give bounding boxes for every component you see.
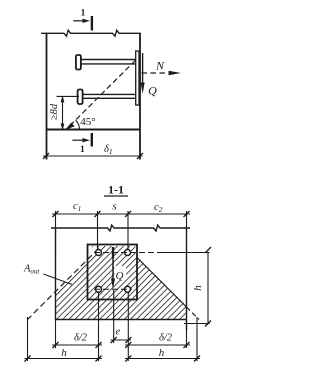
anchor circle top-right <box>125 250 131 256</box>
anchor bolt bottom: head <box>78 90 83 105</box>
svg-text:h: h <box>61 347 67 359</box>
extension line left top <box>55 211 57 252</box>
anchor circle bottom-left <box>96 286 102 292</box>
force Q down arrow <box>141 53 145 94</box>
tick left <box>43 153 49 159</box>
ext line bottom x=55.5 <box>55 320 57 349</box>
section mark 1 top: arrow <box>73 19 90 23</box>
extension line right top <box>186 211 188 232</box>
section mark 1 bottom: tick <box>91 133 93 147</box>
svg-text:c1: c1 <box>73 201 81 213</box>
tick right <box>137 153 143 159</box>
anchor bolt top: head <box>76 55 81 70</box>
svg-text:δ/2: δ/2 <box>159 333 173 344</box>
svg-text:δ1: δ1 <box>104 144 113 156</box>
extension line s left <box>97 211 99 250</box>
svg-text:Q: Q <box>148 84 157 98</box>
svg-text:e: e <box>116 327 121 338</box>
force Q arrow in section <box>111 247 115 289</box>
concrete surface top edge with breaks <box>51 225 190 231</box>
spall cone right side dashed <box>187 307 200 320</box>
svg-text:1-1: 1-1 <box>108 183 124 197</box>
ext line bottom x=113.7 <box>113 290 115 343</box>
svg-text:s: s <box>112 201 116 213</box>
svg-text:Aout: Aout <box>23 264 40 276</box>
h right bottom extension <box>184 323 210 325</box>
tick at 97.5 <box>95 211 101 217</box>
anchor circle bottom-right <box>125 286 131 292</box>
concrete right edge <box>186 228 188 330</box>
plate right edge <box>139 33 141 160</box>
tick at 55.5 <box>53 211 59 217</box>
embedded plate rectangle <box>88 245 138 300</box>
hatch area Aout <box>56 246 187 320</box>
plate top edge with break marks <box>41 30 141 36</box>
svg-text:Q: Q <box>116 270 124 282</box>
Aout leader <box>44 274 73 285</box>
svg-text:1: 1 <box>80 145 85 155</box>
dim h bottom right <box>125 358 200 360</box>
dash line through top anchors to h dim <box>94 252 163 254</box>
dim h bottom left <box>25 358 103 360</box>
edge strip plate (section of angle) <box>136 51 139 105</box>
spall cone right side solid <box>137 257 187 307</box>
spall cone left side dashed <box>28 249 99 320</box>
extension line s right <box>127 211 129 250</box>
ext line bottom x=197 <box>196 317 198 361</box>
dim e line <box>111 339 132 341</box>
dashed 45 deg spall line with arrow <box>70 60 136 126</box>
45 deg arc <box>76 120 80 130</box>
concrete left edge <box>55 228 57 320</box>
anchor bolt bottom: shank <box>83 93 136 95</box>
tick at 186.5 <box>184 211 190 217</box>
anchor bolt top: shank <box>81 59 136 61</box>
svg-text:h: h <box>192 285 204 291</box>
dim b1 bottom: dimension line <box>43 155 143 157</box>
dim h right vertical <box>207 253 209 324</box>
section mark 1 bottom: arrow <box>72 138 90 142</box>
tick at 128 <box>125 211 131 217</box>
ext line bottom x=27.5 <box>27 317 29 361</box>
plate left edge <box>46 33 48 160</box>
svg-text:δ/2: δ/2 <box>74 333 88 344</box>
dim b/2 left <box>52 344 102 346</box>
svg-text:h: h <box>159 347 165 359</box>
anchor circle top-left <box>96 250 102 256</box>
dash line through bottom anchors <box>94 288 132 290</box>
top dim line c1 s c2 <box>52 213 190 215</box>
dim >=8d vertical line with arrows <box>57 95 80 130</box>
plate bottom edge <box>47 129 141 131</box>
ext line bottom x=186.5 <box>186 320 188 349</box>
leader to bolt axis <box>57 95 80 97</box>
ext line bottom x=98.5 <box>98 292 100 361</box>
svg-text:N: N <box>155 59 165 73</box>
force N dashed arrow <box>142 71 182 75</box>
white halo for Q label <box>115 266 127 280</box>
dim b/2 right <box>125 344 190 346</box>
concrete bottom edge <box>56 319 187 321</box>
section mark 1 top: tick <box>91 16 93 31</box>
svg-text:c2: c2 <box>154 202 163 214</box>
ext line bottom x=128.3 <box>127 292 129 361</box>
svg-text:1: 1 <box>81 9 86 19</box>
svg-text:45°: 45° <box>80 116 95 128</box>
svg-text:≥8d: ≥8d <box>49 103 60 120</box>
